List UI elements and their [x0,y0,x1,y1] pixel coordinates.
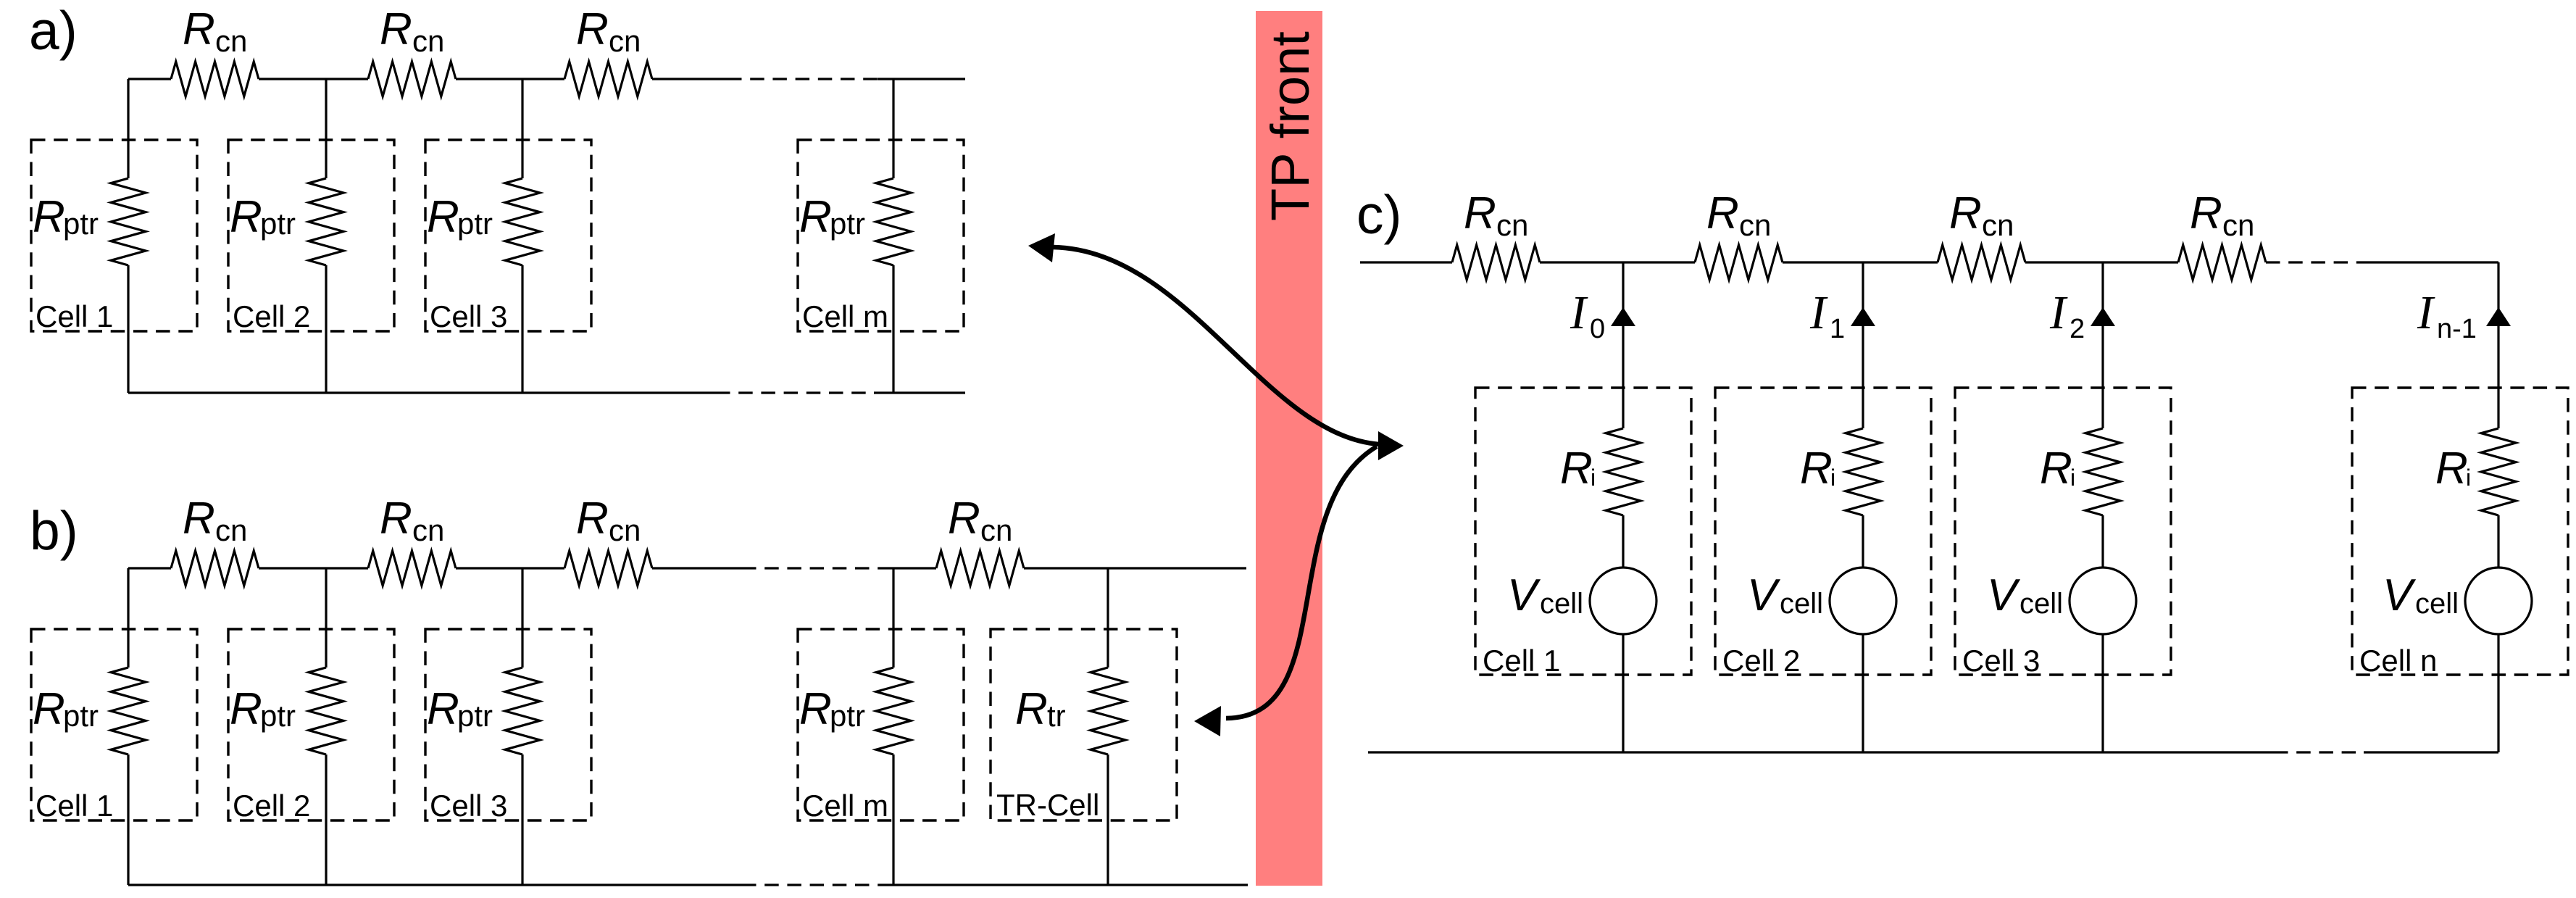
svg-text:R: R [33,192,65,242]
svg-text:R: R [1015,684,1048,734]
svg-text:cell: cell [1780,588,1823,620]
svg-text:i: i [1830,465,1835,491]
svg-text:R: R [799,684,832,734]
svg-text:ptr: ptr [830,699,865,733]
svg-text:cn: cn [412,513,444,547]
svg-text:Cell 3: Cell 3 [1962,644,2040,678]
svg-text:c): c) [1356,184,1401,245]
svg-text:R: R [576,4,609,54]
svg-text:tr: tr [1047,699,1066,733]
svg-text:R: R [1949,188,1982,238]
svg-text:n-1: n-1 [2437,314,2477,344]
svg-text:R: R [948,494,980,544]
svg-text:R: R [1560,444,1593,494]
svg-text:TR-Cell: TR-Cell [996,788,1099,822]
svg-text:Cell 2: Cell 2 [233,299,310,333]
svg-text:ptr: ptr [457,207,493,241]
svg-text:R: R [427,684,459,734]
svg-text:b): b) [30,500,78,561]
svg-text:cn: cn [215,24,247,58]
svg-text:R: R [1706,188,1739,238]
svg-text:Cell 2: Cell 2 [1722,644,1800,678]
svg-text:ptr: ptr [457,699,493,733]
svg-text:Cell 3: Cell 3 [430,299,507,333]
svg-text:I: I [2049,286,2068,339]
svg-text:i: i [1591,465,1596,491]
svg-text:cn: cn [2222,208,2254,242]
svg-text:cn: cn [215,513,247,547]
svg-text:ptr: ptr [830,207,865,241]
svg-text:Cell 3: Cell 3 [430,789,507,823]
svg-text:I: I [2417,286,2435,339]
svg-text:Cell 2: Cell 2 [233,789,310,823]
svg-text:R: R [427,192,459,242]
svg-text:cn: cn [1982,208,2014,242]
svg-text:R: R [380,494,412,544]
svg-text:ptr: ptr [260,207,296,241]
svg-text:a): a) [29,0,78,61]
svg-text:R: R [380,4,412,54]
svg-text:cn: cn [609,24,641,58]
svg-text:V: V [1987,570,2021,620]
svg-text:cell: cell [2019,588,2063,620]
svg-text:cn: cn [1739,208,1771,242]
svg-text:R: R [230,192,262,242]
svg-text:Cell 1: Cell 1 [36,299,113,333]
svg-text:V: V [1507,570,1541,620]
svg-text:R: R [1800,444,1833,494]
svg-text:Cell n: Cell n [2359,644,2437,678]
svg-text:V: V [1747,570,1781,620]
svg-text:R: R [576,494,609,544]
svg-text:cell: cell [2415,588,2459,620]
svg-text:Cell 1: Cell 1 [1483,644,1560,678]
svg-text:cn: cn [609,513,641,547]
svg-text:Cell m: Cell m [802,299,888,333]
svg-text:0: 0 [1590,314,1605,344]
svg-text:2: 2 [2069,314,2085,344]
svg-text:R: R [799,192,832,242]
svg-text:cn: cn [1496,208,1528,242]
svg-text:R: R [230,684,262,734]
svg-text:ptr: ptr [63,699,99,733]
svg-text:V: V [2383,570,2417,620]
svg-text:ptr: ptr [63,207,99,241]
svg-text:i: i [2466,465,2471,491]
svg-text:R: R [2040,444,2072,494]
svg-text:Cell m: Cell m [802,789,888,823]
svg-text:R: R [2190,188,2222,238]
svg-text:R: R [1464,188,1496,238]
svg-text:R: R [2435,444,2468,494]
svg-text:I: I [1809,286,1828,339]
svg-text:cell: cell [1540,588,1583,620]
svg-text:cn: cn [412,24,444,58]
svg-text:R: R [33,684,65,734]
svg-text:R: R [183,494,215,544]
svg-text:cn: cn [980,513,1012,547]
svg-text:1: 1 [1830,314,1845,344]
svg-text:TP front: TP front [1260,31,1320,221]
svg-text:ptr: ptr [260,699,296,733]
svg-text:i: i [2070,465,2075,491]
svg-text:I: I [1570,286,1588,339]
svg-text:R: R [183,4,215,54]
svg-text:Cell 1: Cell 1 [36,789,113,823]
